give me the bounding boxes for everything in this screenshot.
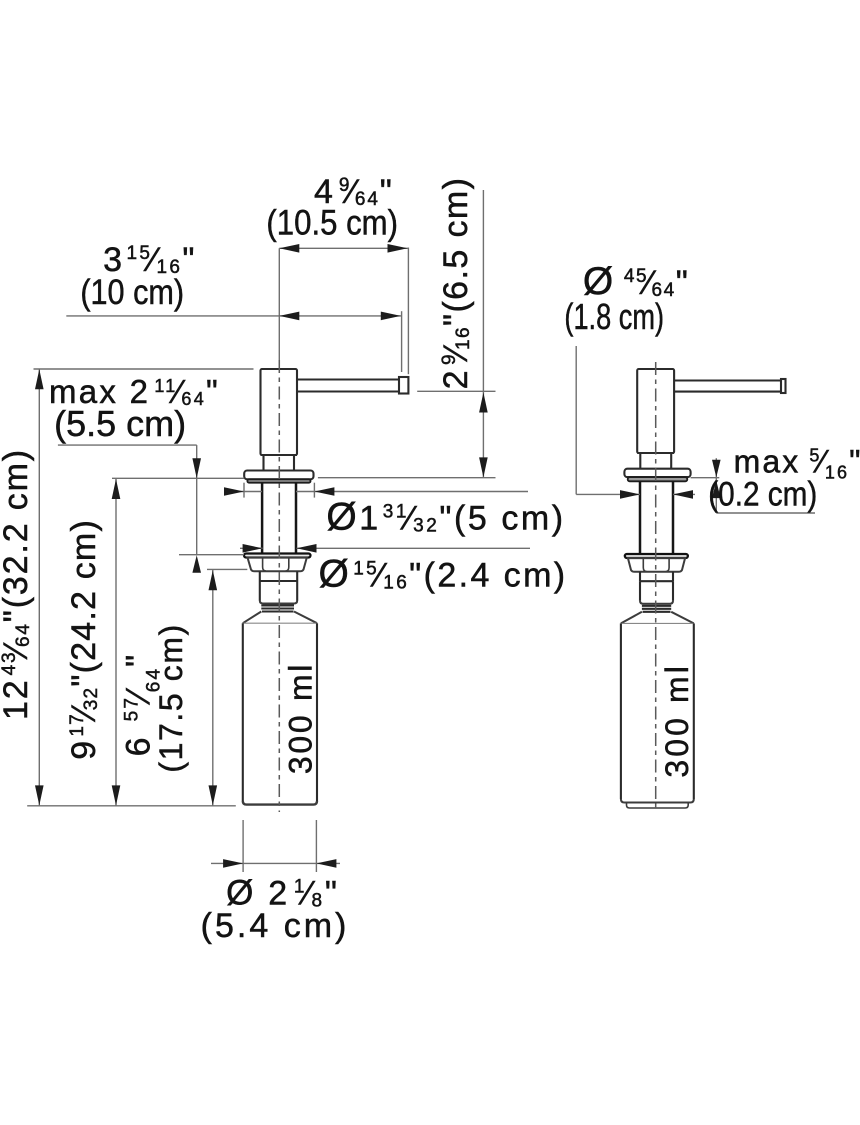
svg-text:(1.8 cm): (1.8 cm) <box>564 296 664 337</box>
svg-text:(0.2 cm): (0.2 cm) <box>708 475 817 513</box>
svg-text:300 ml: 300 ml <box>659 663 695 778</box>
svg-text:300 ml: 300 ml <box>283 662 319 774</box>
svg-text:Ø131⁄32​"(5 cm): Ø131⁄32​"(5 cm) <box>326 496 565 539</box>
svg-text:(10.5 cm): (10.5 cm) <box>266 204 398 243</box>
svg-text:(5.4 cm): (5.4 cm) <box>201 907 350 945</box>
svg-text:1243⁄64​"(32.2 cm): 1243⁄64​"(32.2 cm) <box>0 448 35 720</box>
svg-text:(10 cm): (10 cm) <box>80 272 184 311</box>
svg-text:(17.5 cm): (17.5 cm) <box>153 623 189 773</box>
svg-text:(5.5 cm): (5.5 cm) <box>54 403 186 444</box>
